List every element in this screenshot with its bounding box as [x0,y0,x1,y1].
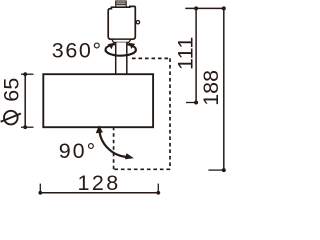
dia65 dimension line [21,74,34,127]
adapter neck flange [112,39,131,42]
360 rotation ellipse [106,44,136,56]
label phi65 diameter symbol [1,111,21,125]
dashed rotated-body outline [114,58,170,169]
188 dimension line [223,8,225,170]
track adapter body [108,6,135,39]
swing arrowhead up [96,125,103,133]
svg-text:65: 65 [0,77,23,101]
svg-text:111: 111 [174,36,198,70]
track plug ribs [116,1,127,7]
lamp body [43,74,153,127]
90 degree swing arc [99,127,129,157]
adapter side bump [136,21,139,24]
rotation arrowhead left [108,43,114,49]
swing arrowhead right [125,153,134,159]
top extension line [185,7,225,9]
111 dimension line [195,8,197,102]
rotation ellipse front arc [106,50,136,56]
svg-text:188: 188 [199,70,223,106]
128 dimension line [40,184,158,193]
rotation arrowhead right [129,43,135,49]
stem [116,42,127,74]
svg-text:128: 128 [78,171,121,195]
svg-text:90°: 90° [59,139,98,163]
svg-text:360°: 360° [52,38,103,62]
